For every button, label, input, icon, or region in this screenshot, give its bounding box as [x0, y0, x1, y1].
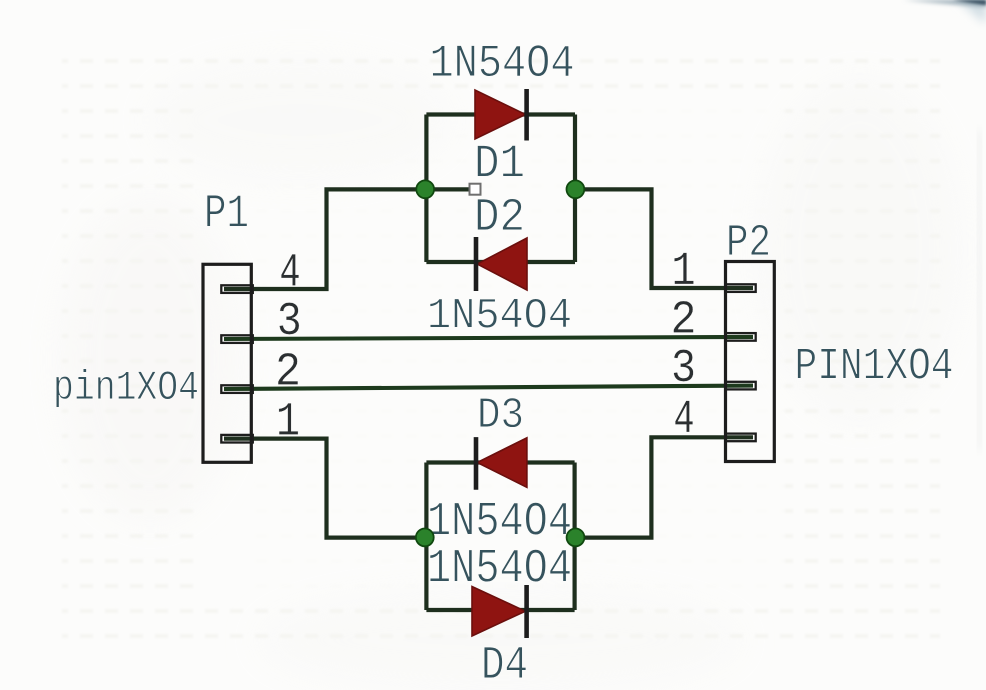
svg-text:4: 4 [674, 394, 695, 447]
svg-text:pin1XO4: pin1XO4 [53, 364, 199, 412]
top-right corner shadow [903, 0, 986, 24]
wire bottom loop right vertical [572, 463, 576, 611]
wire node B to P2 pin1 [575, 189, 753, 288]
wire D2 row horizontal [426, 260, 575, 264]
wire node A stub to origin marker [425, 187, 469, 191]
junction node B dot [567, 180, 585, 198]
D4 anode triangle [472, 587, 525, 637]
P1 pin 2 stub [221, 385, 253, 393]
wire top loop right vertical [573, 115, 577, 263]
P2 pin 2 stub [725, 333, 755, 341]
svg-text:2: 2 [275, 347, 301, 400]
D2 cathode bar [474, 237, 479, 291]
svg-text:D4: D4 [481, 640, 528, 690]
svg-text:PIN1XO4: PIN1XO4 [795, 342, 954, 393]
D3 anode triangle [477, 438, 527, 488]
D1 anode triangle [475, 90, 526, 139]
svg-text:1N54O4: 1N54O4 [430, 37, 575, 90]
svg-text:D2: D2 [474, 192, 525, 245]
svg-text:P2: P2 [726, 218, 771, 269]
svg-text:1: 1 [276, 397, 300, 450]
wire D3 row horizontal [426, 460, 574, 464]
D1 cathode bar [524, 89, 529, 141]
connector P1 body [203, 264, 251, 462]
P1 pin 4 stub [221, 285, 253, 293]
D2 anode triangle [477, 238, 527, 290]
svg-text:D1: D1 [474, 139, 525, 192]
svg-text:4: 4 [280, 248, 301, 301]
wire D4 row horizontal [426, 608, 574, 612]
svg-text:3: 3 [671, 343, 696, 396]
origin marker square [470, 184, 481, 195]
right scan edge faint line [978, 130, 981, 450]
svg-text:2: 2 [671, 295, 697, 348]
D4 cathode bar [524, 585, 529, 638]
svg-text:1N54O4: 1N54O4 [427, 543, 572, 597]
P2 pin 3 stub [725, 382, 755, 390]
wire bottom loop left vertical [424, 463, 428, 611]
svg-text:D3: D3 [477, 392, 524, 441]
connector P2 body [726, 262, 775, 462]
wire P1 pin3 to P2 pin2 [224, 337, 753, 339]
diode D3 (points left) [476, 437, 527, 490]
wire P1 pin4 to node A [224, 189, 421, 289]
P1 pin 1 stub [221, 435, 253, 443]
svg-text:3: 3 [277, 296, 302, 349]
svg-text:1N54O4: 1N54O4 [427, 496, 572, 550]
wire P1 pin2 to P2 pin3 [224, 386, 753, 389]
svg-text:1: 1 [672, 246, 696, 299]
diode D2 (points left) [476, 237, 527, 291]
junction node D dot [567, 529, 585, 547]
svg-text:1N54O4: 1N54O4 [427, 292, 572, 342]
junction node A dot [416, 180, 434, 198]
P2 pin 1 stub [725, 284, 755, 292]
diode D1 (points right) [475, 89, 527, 141]
D3 cathode bar [474, 437, 479, 490]
P1 pin 3 stub [221, 335, 253, 343]
wire P1 pin1 to node C [224, 439, 421, 538]
svg-text:P1: P1 [204, 189, 249, 242]
diode D4 (points right) [472, 585, 527, 638]
P2 pin 4 stub [725, 434, 755, 442]
junction node C dot [416, 529, 434, 547]
wire top loop left vertical [424, 115, 428, 263]
wire D1 row horizontal [426, 112, 575, 116]
wire node D to P2 pin4 [575, 437, 753, 537]
